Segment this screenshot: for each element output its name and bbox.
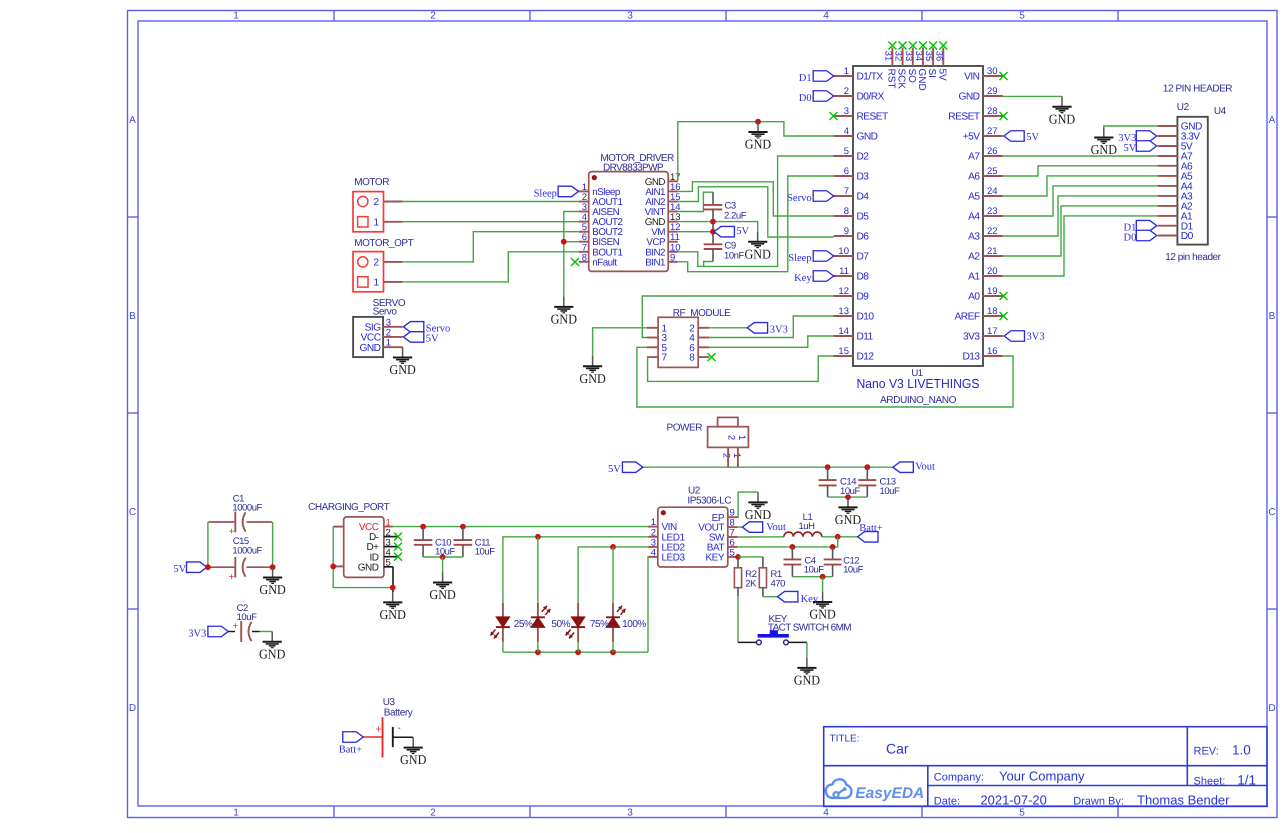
- svg-text:11: 11: [839, 266, 849, 277]
- svg-text:AREF: AREF: [955, 312, 980, 323]
- svg-text:12 PIN HEADER: 12 PIN HEADER: [1163, 83, 1232, 94]
- svg-text:10nF: 10nF: [724, 250, 745, 261]
- svg-text:2: 2: [725, 435, 736, 440]
- svg-text:3V3: 3V3: [1027, 332, 1045, 343]
- svg-text:470: 470: [771, 578, 786, 589]
- svg-text:1: 1: [386, 338, 391, 349]
- svg-text:D: D: [129, 703, 136, 714]
- svg-text:1: 1: [736, 435, 747, 440]
- svg-text:1: 1: [844, 66, 849, 77]
- svg-text:22: 22: [987, 226, 998, 237]
- svg-text:2021-07-20: 2021-07-20: [980, 793, 1047, 808]
- svg-text:KEY: KEY: [705, 553, 724, 564]
- svg-text:GND: GND: [380, 607, 407, 622]
- svg-text:2: 2: [721, 453, 732, 458]
- svg-text:2K: 2K: [745, 578, 757, 589]
- svg-text:A5: A5: [968, 192, 980, 203]
- svg-text:GND: GND: [745, 507, 772, 522]
- svg-text:9: 9: [670, 252, 675, 263]
- svg-text:3V3: 3V3: [770, 324, 788, 335]
- svg-text:5V: 5V: [1026, 132, 1039, 143]
- svg-text:2: 2: [374, 197, 380, 208]
- svg-text:19: 19: [987, 286, 998, 297]
- svg-text:25%: 25%: [514, 619, 533, 630]
- svg-text:12: 12: [838, 286, 849, 297]
- svg-text:Battery: Battery: [384, 708, 413, 719]
- svg-text:21: 21: [987, 246, 998, 257]
- svg-text:D0: D0: [1181, 231, 1194, 242]
- svg-text:D12: D12: [857, 352, 875, 363]
- svg-text:4: 4: [823, 808, 829, 819]
- svg-text:BIN1: BIN1: [645, 257, 665, 268]
- svg-text:3V3: 3V3: [188, 628, 206, 639]
- svg-text:EasyEDA: EasyEDA: [855, 785, 924, 802]
- svg-text:Date:: Date:: [934, 796, 960, 808]
- svg-text:A1: A1: [968, 272, 980, 283]
- svg-text:1: 1: [731, 453, 742, 458]
- svg-text:U3: U3: [383, 697, 396, 708]
- svg-text:10uF: 10uF: [880, 486, 901, 497]
- svg-text:Key: Key: [794, 273, 812, 284]
- svg-text:5: 5: [1019, 11, 1025, 22]
- svg-text:26: 26: [987, 146, 998, 157]
- svg-text:GND: GND: [358, 562, 379, 573]
- svg-text:GND: GND: [579, 371, 606, 386]
- svg-text:3V3: 3V3: [963, 332, 980, 343]
- svg-text:1000uF: 1000uF: [232, 545, 262, 556]
- svg-text:GND: GND: [916, 69, 927, 91]
- svg-text:10uF: 10uF: [804, 565, 825, 576]
- svg-text:9: 9: [844, 226, 849, 237]
- svg-text:24: 24: [987, 186, 998, 197]
- svg-text:2.2uF: 2.2uF: [724, 210, 747, 221]
- svg-text:2: 2: [430, 808, 436, 819]
- svg-text:1: 1: [233, 11, 239, 22]
- svg-text:5: 5: [730, 547, 735, 558]
- svg-text:10uF: 10uF: [435, 547, 456, 558]
- svg-text:B: B: [129, 311, 136, 322]
- svg-text:17: 17: [987, 326, 998, 337]
- svg-text:nFault: nFault: [592, 257, 617, 268]
- svg-text:Batt+: Batt+: [339, 745, 362, 756]
- svg-text:Drawn By:: Drawn By:: [1073, 796, 1124, 808]
- svg-text:POWER: POWER: [667, 422, 703, 433]
- svg-text:10uF: 10uF: [840, 486, 861, 497]
- svg-text:Company:: Company:: [934, 772, 984, 784]
- svg-text:RST: RST: [885, 69, 896, 89]
- svg-text:10uF: 10uF: [237, 612, 258, 623]
- svg-text:GND: GND: [551, 312, 578, 327]
- svg-text:+: +: [232, 621, 238, 632]
- svg-text:-: -: [398, 723, 401, 733]
- svg-text:GND: GND: [745, 137, 772, 152]
- svg-text:D1/TX: D1/TX: [857, 72, 884, 83]
- svg-text:D4: D4: [857, 192, 870, 203]
- svg-text:Nano V3 LIVETHINGS: Nano V3 LIVETHINGS: [857, 376, 980, 391]
- svg-text:12 pin header: 12 pin header: [1165, 252, 1221, 263]
- svg-text:28: 28: [987, 106, 998, 117]
- svg-text:Servo: Servo: [787, 193, 812, 204]
- svg-text:2: 2: [430, 11, 436, 22]
- svg-text:5: 5: [844, 146, 849, 157]
- svg-text:4: 4: [844, 126, 849, 137]
- svg-text:1: 1: [374, 278, 380, 289]
- svg-text:C: C: [129, 507, 136, 518]
- svg-text:5V: 5V: [608, 464, 621, 475]
- svg-text:IP5306-LC: IP5306-LC: [687, 496, 731, 507]
- svg-text:RESET: RESET: [948, 112, 980, 123]
- svg-text:1000uF: 1000uF: [232, 503, 262, 514]
- svg-text:D13: D13: [962, 352, 980, 363]
- svg-text:30: 30: [987, 66, 998, 77]
- svg-text:1.0: 1.0: [1232, 743, 1251, 758]
- svg-text:D0: D0: [799, 93, 812, 104]
- svg-text:1/1: 1/1: [1237, 772, 1256, 787]
- svg-text:3: 3: [627, 808, 633, 819]
- svg-text:Your Company: Your Company: [999, 769, 1085, 784]
- svg-text:LED3: LED3: [662, 553, 686, 564]
- svg-text:RESET: RESET: [857, 112, 889, 123]
- svg-text:GND: GND: [360, 343, 381, 354]
- svg-text:+: +: [229, 527, 235, 538]
- svg-text:Batt+: Batt+: [859, 523, 882, 534]
- svg-text:A7: A7: [968, 152, 980, 163]
- svg-text:D10: D10: [857, 312, 875, 323]
- svg-text:+: +: [375, 723, 381, 735]
- svg-text:3: 3: [844, 106, 849, 117]
- svg-text:Vout: Vout: [766, 522, 786, 533]
- svg-text:7: 7: [662, 353, 668, 364]
- svg-text:Car: Car: [886, 741, 909, 757]
- svg-text:13: 13: [838, 306, 849, 317]
- svg-text:32: 32: [894, 51, 904, 61]
- svg-text:GND: GND: [259, 582, 286, 597]
- svg-text:GND: GND: [1091, 142, 1118, 157]
- svg-text:Servo: Servo: [373, 307, 398, 318]
- svg-text:GND: GND: [857, 132, 878, 143]
- svg-text:U4: U4: [1214, 106, 1227, 117]
- svg-text:10uF: 10uF: [843, 565, 864, 576]
- svg-text:7: 7: [844, 186, 849, 197]
- svg-text:50%: 50%: [551, 619, 570, 630]
- svg-text:U2: U2: [1177, 102, 1190, 113]
- svg-text:D0/RX: D0/RX: [857, 92, 885, 103]
- svg-text:20: 20: [987, 266, 998, 277]
- svg-text:Vout: Vout: [915, 461, 935, 472]
- svg-text:8: 8: [844, 206, 849, 217]
- svg-text:GND: GND: [389, 362, 416, 377]
- svg-text:Sleep: Sleep: [788, 253, 811, 264]
- svg-text:Sheet:: Sheet:: [1194, 775, 1226, 787]
- svg-text:ARDUINO_NANO: ARDUINO_NANO: [880, 395, 957, 406]
- svg-text:6: 6: [844, 166, 849, 177]
- svg-text:GND: GND: [959, 92, 980, 103]
- svg-text:VIN: VIN: [964, 72, 980, 83]
- svg-text:10: 10: [838, 246, 849, 257]
- svg-text:D: D: [1268, 703, 1275, 714]
- svg-text:B: B: [1269, 311, 1276, 322]
- svg-text:5V: 5V: [426, 333, 439, 344]
- svg-text:16: 16: [987, 346, 998, 357]
- svg-text:A: A: [1269, 115, 1276, 126]
- svg-text:C: C: [1268, 507, 1275, 518]
- svg-text:Key: Key: [801, 594, 819, 605]
- svg-text:GND: GND: [400, 752, 427, 767]
- svg-text:3: 3: [627, 11, 633, 22]
- svg-text:SCK: SCK: [896, 69, 907, 90]
- svg-text:34: 34: [914, 51, 924, 61]
- svg-text:5V: 5V: [173, 564, 186, 575]
- svg-text:A3: A3: [968, 232, 980, 243]
- svg-text:SO: SO: [906, 69, 917, 84]
- svg-text:D8: D8: [857, 272, 870, 283]
- svg-text:8: 8: [582, 252, 587, 263]
- svg-text:31: 31: [883, 51, 893, 61]
- svg-text:5V: 5V: [1124, 143, 1137, 154]
- svg-text:1: 1: [374, 217, 380, 228]
- svg-text:GND: GND: [429, 587, 456, 602]
- svg-text:+5V: +5V: [963, 132, 981, 143]
- svg-text:Thomas Bender: Thomas Bender: [1137, 793, 1230, 808]
- svg-text:D0: D0: [1124, 232, 1137, 243]
- svg-text:15: 15: [838, 346, 849, 357]
- svg-text:36: 36: [934, 51, 944, 61]
- svg-text:14: 14: [838, 326, 849, 337]
- svg-text:5: 5: [1019, 808, 1025, 819]
- svg-text:18: 18: [987, 306, 998, 317]
- svg-text:D1: D1: [799, 73, 812, 84]
- svg-text:GND: GND: [794, 673, 821, 688]
- svg-text:4: 4: [823, 11, 829, 22]
- svg-text:REV:: REV:: [1194, 746, 1219, 758]
- svg-text:MOTOR: MOTOR: [354, 177, 389, 188]
- svg-text:4: 4: [651, 547, 656, 558]
- svg-text:10uF: 10uF: [475, 547, 496, 558]
- svg-text:+: +: [229, 572, 235, 583]
- svg-text:GND: GND: [809, 607, 836, 622]
- svg-text:D11: D11: [857, 332, 874, 343]
- svg-text:GND: GND: [745, 246, 772, 261]
- svg-text:8: 8: [689, 353, 695, 364]
- svg-text:A: A: [129, 115, 136, 126]
- svg-text:2: 2: [374, 258, 380, 269]
- svg-text:D2: D2: [857, 152, 870, 163]
- svg-text:5: 5: [386, 558, 391, 569]
- svg-text:35: 35: [924, 51, 934, 61]
- svg-text:25: 25: [987, 166, 998, 177]
- svg-text:GND: GND: [1049, 111, 1076, 126]
- svg-text:D9: D9: [857, 292, 870, 303]
- svg-text:D5: D5: [857, 212, 870, 223]
- svg-text:75%: 75%: [590, 619, 609, 630]
- svg-text:D3: D3: [857, 172, 870, 183]
- svg-text:D7: D7: [857, 252, 870, 263]
- svg-text:29: 29: [987, 86, 998, 97]
- svg-text:TACT SWITCH 6MM: TACT SWITCH 6MM: [768, 623, 851, 634]
- svg-text:CHARGING_PORT: CHARGING_PORT: [308, 502, 390, 513]
- svg-text:D6: D6: [857, 232, 870, 243]
- svg-text:27: 27: [987, 126, 998, 137]
- svg-text:33: 33: [904, 51, 914, 61]
- svg-text:1uH: 1uH: [798, 521, 815, 532]
- svg-text:1: 1: [233, 808, 239, 819]
- svg-text:23: 23: [987, 206, 998, 217]
- svg-text:5V: 5V: [736, 226, 749, 237]
- svg-text:SI: SI: [926, 69, 937, 78]
- svg-text:TITLE:: TITLE:: [830, 734, 860, 745]
- svg-text:2: 2: [844, 86, 849, 97]
- svg-text:GND: GND: [259, 646, 286, 661]
- svg-text:Sleep: Sleep: [534, 188, 557, 199]
- svg-text:MOTOR_OPT: MOTOR_OPT: [354, 238, 413, 249]
- svg-text:A0: A0: [968, 292, 980, 303]
- svg-text:GND: GND: [835, 512, 862, 527]
- svg-text:A2: A2: [968, 252, 980, 263]
- svg-text:5V: 5V: [936, 69, 947, 82]
- svg-text:A4: A4: [968, 212, 980, 223]
- svg-text:100%: 100%: [622, 619, 646, 630]
- svg-text:A6: A6: [968, 172, 980, 183]
